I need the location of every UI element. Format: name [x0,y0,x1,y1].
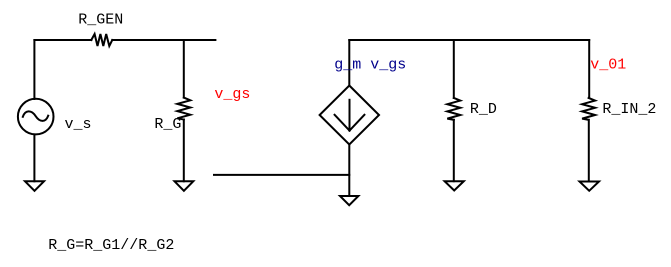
wire R_D top vertical [453,40,455,98]
wire top-left rail left segment [34,39,91,41]
resistor R_G [177,98,190,120]
ground below R_G [175,181,194,191]
dependent current source G1 (g_m*v_gs) [320,86,379,145]
svg-text:v_gs: v_gs [214,86,250,103]
resistor R_IN_2 [582,98,595,120]
wire R_IN_2 top vertical [588,40,590,98]
wire left vertical from top rail down to V_S [33,40,35,99]
svg-text:g_m v_gs: g_m v_gs [334,57,406,74]
wire top-right rail (node v_01) [349,39,589,41]
ground below G1 [340,196,358,205]
wire below G1 [348,145,350,197]
wire R_G top vertical from node v_g [183,40,185,98]
svg-text:v_01: v_01 [590,56,626,73]
svg-text:R_IN_2: R_IN_2 [602,101,656,118]
svg-text:R_G=R_G1//R_G2: R_G=R_G1//R_G2 [48,237,174,254]
wire top-left rail right segment to node v_g [112,39,215,41]
wire below R_D [453,120,455,181]
ground below V_S [25,181,44,191]
wire below R_G [183,120,185,182]
svg-text:R_G: R_G [154,116,181,133]
voltage source V_S [18,99,54,135]
svg-text:R_D: R_D [470,101,497,118]
wire below R_IN_2 [588,120,590,182]
resistor R_D [447,98,460,120]
wire middle horizontal source net [214,174,349,176]
svg-text:v_s: v_s [65,116,92,133]
ground below R_D [445,181,464,190]
wire below V_S [33,135,35,182]
resistor R_GEN [91,34,112,46]
wire above dependent source G1 [348,40,350,86]
ground below R_IN_2 [580,182,600,191]
svg-text:R_GEN: R_GEN [78,12,123,29]
